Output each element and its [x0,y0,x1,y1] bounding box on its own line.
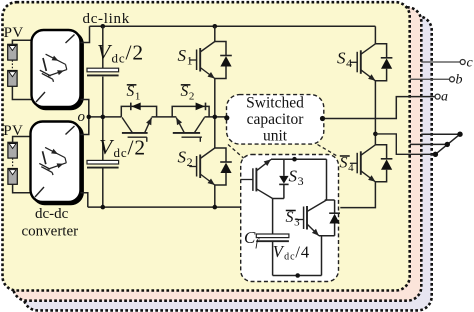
transistor S2bar [172,103,209,142]
wire midpoint to S2 collector [214,117,216,148]
terminal b [450,77,455,82]
wire S1 emitter to midpoint [214,79,216,117]
label S3bar [286,209,301,229]
terminal a [435,94,440,99]
wire emitter node to SC bottom [321,236,323,276]
node o junction dot [87,115,92,120]
wire S3bar emitter node [319,235,335,237]
wire SC node A [325,199,335,201]
node label box right [320,116,325,121]
transistor S3 [241,159,273,198]
label S2 [178,148,193,170]
wire S3 collector node [273,198,284,200]
wire SC top node [271,158,327,160]
switched capacitor unit label box [227,95,324,145]
wire PV1 to converter 1 [12,40,31,44]
svg-text:Switched: Switched [246,95,304,112]
transistor S2 [189,148,232,185]
wire node o to converter2 plus input [81,117,89,135]
PV panel 1 [8,44,17,60]
node rail / S2 emitter [213,205,218,210]
wire node o row to C dc2 [102,117,104,160]
capacitor C1 [256,234,289,241]
label S3 [289,167,304,189]
wire bus corner to S4 [374,26,376,44]
switched capacitor unit detail box [241,155,339,282]
wire load diagonal [435,134,460,154]
svg-text:b: b [456,73,463,88]
node SC top [292,157,297,162]
wire C dc2 to bottom rail [102,168,104,207]
node load b [445,142,450,147]
capacitor Vdc/2 lower [87,160,119,167]
wire b-leg to load node [410,143,448,145]
node midpoint S1-S2 [213,115,218,120]
diode D3 (S3 antiparallel) [279,159,288,198]
svg-text:PV: PV [4,25,24,41]
wire C1 to SC bottom rail [272,241,274,275]
wire SC bottom rail [273,275,322,277]
card layer 1 (front, yellow) [3,2,410,290]
wire converter2 minus output to bottom rail [81,193,88,207]
wire S2 emitter to bottom rail [214,185,216,207]
transistor S3bar [296,200,327,236]
node dc-link / capacitor bus [101,24,106,29]
terminal c [460,60,465,65]
svg-text:unit: unit [263,128,288,145]
wire PV3 to converter 2 [13,137,31,143]
node SC bottom [295,273,300,278]
wire S4bar emitter to SC box [340,182,375,208]
wire node o row [89,116,122,118]
label S2bar [181,83,195,103]
transistor S4bar [350,145,393,182]
PV panel 4 [8,169,17,185]
wire terminal c [421,61,460,63]
svg-text:c: c [467,56,474,71]
wire terminal b [410,78,450,80]
PV panel 3 [8,142,17,158]
label S1bar [127,83,141,103]
wire bottom dc rail [88,206,241,208]
svg-text:dc-dc: dc-dc [35,206,69,222]
transistor S1bar [121,103,156,142]
wire bus to C dc1 [102,26,104,68]
node midpoint S4 [373,132,378,137]
wire PV2 to converter 1 [12,86,31,99]
label S4 [337,49,352,71]
transistor S1 [189,42,232,79]
wire dotted PV string 1 [11,60,13,70]
node load c [457,132,462,137]
wire midpoint to S4bar collector [374,134,376,145]
node rail / capacitor bus [101,205,106,210]
node load a [433,152,438,157]
capacitor Vdc/2 upper [87,68,119,75]
node label box left [224,115,229,120]
diode D3bar (S3bar antiparallel) [329,200,340,236]
wire S4 emitter to midpoint [374,81,376,134]
svg-text:dc-link: dc-link [83,11,130,27]
wire C dc1 to node o [102,77,104,117]
wire bus to S1 collector [214,26,216,41]
node capacitor bus / o row [101,115,106,120]
wire converter1 minus output to node o [81,100,89,117]
svg-text:o: o [78,109,86,125]
wire terminal a from SC unit [322,97,435,119]
dc-dc converter block U2 [31,122,84,206]
PV panel 2 [8,71,17,87]
wire converter1 plus output riser [81,26,90,42]
callout dashed line right [318,145,338,157]
wire dc-link bus [90,25,376,27]
callout dashed line left [228,145,244,159]
svg-text:a: a [441,90,448,105]
wire midpoint a-leg to load node [375,134,435,154]
label S1 [178,46,193,68]
label S4bar [340,155,355,175]
node dc-link / S1 branch [213,24,218,29]
wire SC right top [326,159,328,200]
svg-text:capacitor: capacitor [247,111,305,128]
transistor S4 [350,44,393,81]
svg-text:converter: converter [22,224,79,240]
wire c-leg to load node [421,133,460,135]
wire PV4 to converter 2 [13,184,31,193]
wire dotted PV string 2 [12,158,14,168]
wire node to C1 [272,199,274,235]
dc-dc converter block U1 [32,30,84,110]
